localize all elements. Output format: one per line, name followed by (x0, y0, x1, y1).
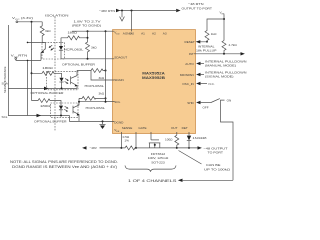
wire opto1 collector line (28, 41, 46, 43)
isolation dashed line (54, 17, 56, 131)
svg-text:180Ω: 180Ω (42, 66, 53, 70)
IC pin labels top edge (123, 31, 167, 35)
svg-text:(SIGNAL MODE): (SIGNAL MODE) (205, 75, 234, 79)
svg-text:SCL: SCL (114, 100, 120, 104)
svg-text:1%: 1% (124, 138, 129, 142)
wire VCC vertical feed (31, 22, 33, 101)
wire FET to output node (150, 147, 177, 149)
svg-text:SENSE: SENSE (122, 126, 133, 130)
wire AGND pin drop (131, 11, 133, 32)
wire MIDSPAN pin (196, 70, 246, 78)
opto1 light arrows (49, 45, 54, 50)
svg-text:A0: A0 (130, 31, 134, 35)
resistor R10 sense 0.5ohm (121, 135, 136, 150)
svg-text:1kΩ: 1kΩ (211, 32, 217, 36)
svg-text:OFF: OFF (203, 106, 209, 110)
resistor R9 4.7k INT pullup (222, 41, 237, 54)
wire VEE pin drop (120, 132, 122, 148)
svg-text:INT: INT (189, 52, 194, 56)
ground AGND arrow (120, 11, 125, 22)
svg-text:DGND RANGE IS BETWEEN Vᴇᴇ AND: DGND RANGE IS BETWEEN Vᴇᴇ AND (AGND + 4V… (12, 165, 117, 169)
svg-text:OPTIONAL BUFFER: OPTIONAL BUFFER (62, 62, 96, 66)
resistor R11 100ohm OUT (165, 132, 179, 149)
IC pin labels right edge (180, 40, 195, 105)
svg-text:SDAOUT: SDAOUT (114, 56, 127, 60)
ground DGND symbol (99, 121, 105, 129)
svg-text:AUTO: AUTO (185, 62, 194, 66)
svg-text:HCPL063L: HCPL063L (85, 84, 105, 88)
resistor R3 3k pullup SDAOUT (86, 31, 98, 59)
svg-text:1N4448: 1N4448 (193, 136, 207, 140)
note text (10, 160, 118, 169)
diode D4 1N4448 (187, 132, 207, 149)
svg-text:100Ω: 100Ω (165, 138, 173, 142)
wire SDA line with arrow (8, 87, 77, 91)
svg-text:3kΩ: 3kΩ (91, 46, 97, 50)
svg-text:SERIAL INTERFACE: SERIAL INTERFACE (3, 66, 7, 93)
svg-text:OPTIONAL BUFFER: OPTIONAL BUFFER (34, 119, 67, 123)
diode D3 opto3 LED (59, 106, 63, 116)
svg-text:1 OF 4 CHANNELS: 1 OF 4 CHANNELS (128, 179, 178, 183)
svg-text:OSC_IN: OSC_IN (182, 82, 194, 86)
transistor Q3 opto3 phototransistor (73, 98, 80, 121)
wire VEE rail to FET (136, 147, 150, 149)
svg-text:SDA: SDA (2, 81, 9, 85)
svg-text:(MANUAL MODE): (MANUAL MODE) (205, 64, 236, 68)
svg-text:TO PORT: TO PORT (208, 150, 224, 154)
node junction VCC (31, 21, 33, 23)
svg-text:−48V RTN: −48V RTN (99, 9, 115, 13)
svg-text:SHD: SHD (187, 101, 194, 105)
wire SCL line with arrow (8, 114, 70, 118)
transistor Q1 opto1 phototransistor (41, 42, 46, 60)
node VCCRTN terminal (11, 54, 28, 60)
transistor Q2 opto2 phototransistor (71, 71, 78, 89)
wire SDAIN line (91, 71, 114, 81)
svg-text:RESET: RESET (184, 40, 194, 44)
diode D2 opto2 LED (59, 78, 63, 89)
label 1 of 4 channels (128, 179, 233, 183)
wire -48V RTN rail (99, 9, 176, 13)
svg-text:ISOLATION: ISOLATION (45, 13, 69, 17)
svg-text:MAX5952B: MAX5952B (142, 76, 166, 80)
svg-text:MIDSPAN: MIDSPAN (180, 73, 194, 77)
svg-text:3kΩ: 3kΩ (99, 76, 105, 80)
node -48 RTN output arrow (176, 2, 212, 12)
resistor R6 180ohm (SCL LED) (32, 99, 62, 109)
wire INT line (194, 52, 245, 55)
svg-text:NOTE: ALL SIGNAL PINS ARE REFE: NOTE: ALL SIGNAL PINS ARE REFERENCED TO … (10, 160, 118, 164)
svg-text:ON: ON (227, 99, 232, 103)
node -48V input (82, 146, 122, 150)
switch SW1 SHD off/on (196, 99, 231, 110)
IC U1 MAX5952 body (113, 30, 196, 134)
svg-text:3kΩ: 3kΩ (99, 92, 105, 96)
svg-text:SOT-223: SOT-223 (151, 160, 165, 164)
resistor R1 3k pullup SDA (40, 22, 51, 43)
wire SENSE pin drop (135, 132, 137, 149)
wire switch to channels (221, 106, 234, 180)
wire output to port (177, 146, 228, 154)
wire SCL line to IC (78, 98, 114, 102)
wire AUTO pin (196, 59, 246, 67)
svg-text:OUT: OUT (171, 126, 178, 130)
wire OSC_IN pin N.C. (196, 82, 215, 86)
svg-text:−48V: −48V (90, 146, 98, 150)
svg-text:18k PULLUP: 18k PULLUP (196, 49, 217, 53)
optocoupler U3 HCPL063L (SDA to SDAIN) dashed box (47, 72, 79, 90)
label FDT3612 (148, 152, 169, 164)
wire VCC rail (18, 21, 42, 23)
svg-text:A1: A1 (141, 31, 145, 35)
svg-text:OUTPUT TO PORT: OUTPUT TO PORT (182, 6, 213, 10)
optocoupler U2 HCPL063L (SDAOUT path) dashed box (42, 43, 65, 59)
resistor R4 180ohm (SDA LED) (32, 66, 62, 78)
resistor R2 180ohm (SDAOUT LED) (61, 31, 88, 40)
wire VCCRTN to opto1 emitter (15, 59, 17, 60)
transistor Q4 FDT3612 MOSFET (149, 132, 161, 148)
IC pin labels left edge (114, 30, 127, 133)
svg-text:180Ω: 180Ω (40, 104, 51, 108)
resistor R7 3k pullup SCL (79, 92, 106, 101)
svg-text:A2: A2 (152, 31, 156, 35)
optocoupler U4 HCPL063L (SCL) dashed box (51, 103, 79, 117)
svg-text:4.7kΩ: 4.7kΩ (229, 43, 238, 47)
resistor R5 3k pullup SDAIN (77, 69, 107, 81)
svg-text:N.C.: N.C. (209, 82, 215, 86)
wire VCCRTN vertical (27, 60, 29, 115)
opto2 light arrows (65, 79, 69, 85)
brace 1 of 4 channels (125, 166, 176, 172)
node VEE top terminal (220, 10, 226, 40)
opto3 light arrows (64, 106, 68, 111)
svg-text:OPTIONAL BUFFER: OPTIONAL BUFFER (31, 91, 65, 95)
svg-text:3kΩ: 3kΩ (45, 29, 51, 33)
svg-text:UP TO 100kΩ: UP TO 100kΩ (204, 167, 231, 171)
svg-text:DGND: DGND (114, 121, 124, 125)
serial interface bracket (8, 25, 10, 116)
svg-text:(REF TO DGND): (REF TO DGND) (72, 24, 101, 28)
svg-text:A3: A3 (163, 31, 167, 35)
node VCC 3.3V terminal (12, 16, 33, 23)
resistor R8 1k RESET pullup (196, 19, 224, 44)
svg-text:HCPL063L: HCPL063L (64, 48, 84, 52)
svg-text:DET: DET (182, 126, 188, 130)
wire VDD2 vertical (105, 31, 107, 102)
svg-text:HCPL063L: HCPL063L (86, 106, 106, 110)
wire VDD2 rail (72, 30, 114, 32)
svg-text:VCCRTN: VCCRTN (11, 54, 28, 59)
svg-text:GATE: GATE (138, 126, 146, 130)
svg-text:SDAIN: SDAIN (114, 78, 123, 82)
diode D1 opto1 LED (59, 38, 63, 59)
wire DGND line (70, 116, 115, 122)
leader can be up to 100k (179, 151, 231, 172)
svg-text:SCL: SCL (2, 115, 8, 119)
IC pin labels bottom edge (122, 126, 188, 130)
wire SDAOUT line (61, 58, 114, 60)
